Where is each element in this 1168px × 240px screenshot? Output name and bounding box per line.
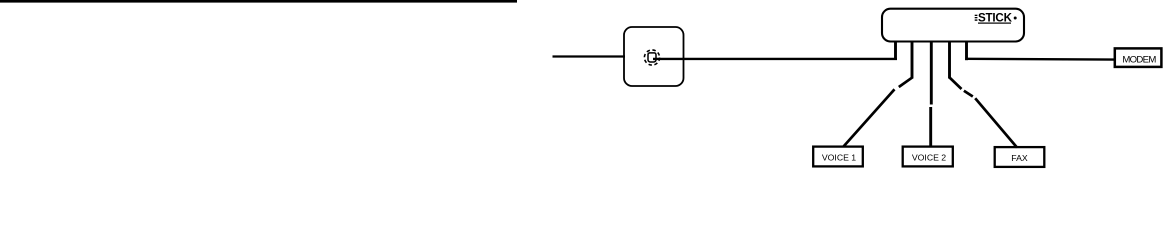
svg-text:MODEM: MODEM (1122, 54, 1156, 65)
wall jack icon: dashed circle (644, 50, 659, 65)
svg-text:FAX: FAX (1011, 153, 1028, 163)
wire to FAX: diagonal segment 1 (949, 77, 962, 89)
FAX box (995, 147, 1045, 167)
wire to VOICE 1: diagonal lower segment (after break) (844, 89, 895, 146)
wire to VOICE 2: lower segment (after break) (929, 107, 932, 147)
logo: THE (stacked vertically) (975, 15, 978, 16)
VOICE 2 box (903, 147, 953, 167)
wire to FAX: diagonal segment 2 (after first break) (964, 91, 973, 97)
wire: telephone line from left to wall jack (553, 55, 626, 57)
svg-text:VOICE 1: VOICE 1 (822, 152, 856, 162)
wall jack box (624, 27, 684, 86)
port leg 5 (to MODEM) (965, 41, 968, 61)
wire to FAX: diagonal segment 3 (after second break) (975, 98, 1017, 147)
wire: Stick to modem (965, 58, 1114, 61)
logo trademark dot (1014, 17, 1017, 20)
MODEM box (1115, 48, 1162, 67)
wall jack icon: jack outline (648, 53, 656, 62)
port leg 3 (to VOICE 2, upper segment) (930, 41, 933, 105)
wire to VOICE 1: diagonal upper segment (899, 77, 913, 87)
logo underline (978, 23, 1011, 24)
port leg 4 (to FAX) (948, 41, 951, 79)
The Stick unit (line-sharing device) (882, 9, 1024, 42)
port leg 2 (to VOICE 1) (911, 41, 914, 79)
svg-text:VOICE 2: VOICE 2 (912, 152, 946, 162)
port leg 1 (line in) (894, 41, 897, 60)
wire: wall jack to Stick unit (653, 58, 897, 60)
top rule (0, 0, 517, 3)
VOICE 1 box (813, 147, 863, 167)
